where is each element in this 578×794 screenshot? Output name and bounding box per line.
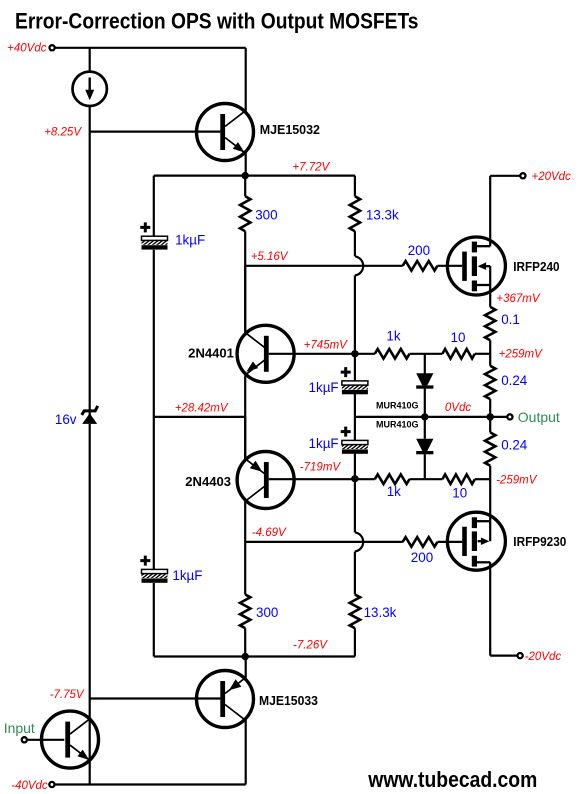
resistor 0.24 lower <box>485 432 495 465</box>
wire left rail lower (zener to bottom) <box>89 424 91 785</box>
svg-text:MUR410G: MUR410G <box>376 401 419 411</box>
wire output to 0.24l <box>489 417 491 433</box>
terminal +20Vdc <box>520 173 525 178</box>
wire -719 node to hop <box>354 479 356 533</box>
resistor 300 bottom <box>240 595 250 629</box>
wire cap to 0V rail <box>354 394 356 440</box>
wire diode column upper <box>424 354 426 374</box>
capacitor 1kuF lower-left <box>140 556 167 583</box>
svg-text:10: 10 <box>452 485 467 500</box>
svg-text:1kµF: 1kµF <box>175 232 205 247</box>
transistor Q-input <box>42 711 99 768</box>
svg-text:1kµF: 1kµF <box>172 568 202 583</box>
resistor 13.3k top <box>350 196 360 231</box>
terminal Input <box>22 737 27 742</box>
wire -7.75V line <box>90 697 221 699</box>
wire 2N4403 emitter up <box>244 417 246 459</box>
wire +28.42mV link <box>154 416 245 418</box>
wire 2N4403 emitter arrow (points into bar) <box>250 461 262 472</box>
svg-text:1kµF: 1kµF <box>309 380 339 395</box>
resistor 200 bottom <box>403 537 438 547</box>
resistor 13.3k bottom <box>350 595 360 629</box>
mosfet IRFP9230 <box>447 512 505 570</box>
svg-text:+745mV: +745mV <box>304 340 348 352</box>
svg-text:-259mV: -259mV <box>496 474 538 486</box>
svg-text:-20Vdc: -20Vdc <box>525 651 562 663</box>
wire 13.3k-top to hop <box>354 231 356 256</box>
wire MJE15033 emitter arrow (points into bar) <box>229 679 241 690</box>
svg-text:MJE15033: MJE15033 <box>259 693 318 708</box>
wire 13.3k-top upper lead <box>354 176 356 197</box>
svg-text:Error-Correction OPS with Outp: Error-Correction OPS with Output MOSFETs <box>15 8 419 33</box>
resistor 1k bottom <box>375 474 410 484</box>
wire -7.26V rail <box>154 655 355 657</box>
resistor 300 top <box>240 196 250 231</box>
wire IRFP240 source down <box>489 266 491 307</box>
wire hop to 13.3k bottom <box>354 552 356 595</box>
wire -20V stub <box>490 654 517 656</box>
svg-text:200: 200 <box>411 550 433 565</box>
wire cap to -719mV node <box>354 454 356 479</box>
wire MJE15032 emitter down <box>245 153 247 176</box>
svg-text:IRFP240: IRFP240 <box>513 259 559 274</box>
wire 0V rail <box>355 416 508 418</box>
mosfet IRFP240 <box>447 237 505 295</box>
resistor 10 bottom <box>442 474 474 484</box>
wire hop over -4.69V line <box>355 532 363 551</box>
wire MJE15033 emitter up <box>245 657 247 680</box>
wire 13.3k-bottom lower lead <box>354 628 356 656</box>
svg-text:300: 300 <box>255 207 277 222</box>
resistor 0.24 upper <box>485 366 495 399</box>
svg-text:-719mV: -719mV <box>300 462 342 474</box>
wire bottom rail -40V <box>55 783 246 785</box>
svg-text:-4.69V: -4.69V <box>252 527 287 539</box>
svg-text:200: 200 <box>408 243 430 258</box>
wire input base <box>27 739 64 741</box>
node diodes 0V junction <box>421 413 428 420</box>
svg-text:-7.75V: -7.75V <box>50 689 85 701</box>
svg-text:0.1: 0.1 <box>501 312 520 327</box>
svg-text:16v: 16v <box>55 412 77 427</box>
wire +5.16V line <box>245 265 403 267</box>
svg-text:+7.72V: +7.72V <box>292 162 330 174</box>
wire 2N4401 base to node <box>269 353 355 355</box>
terminal -20Vdc <box>518 653 523 658</box>
wire left cap column lower <box>153 583 155 657</box>
resistor 10 top <box>442 349 474 359</box>
wire 10 to -259mV <box>475 478 490 480</box>
terminal +40Vdc <box>50 45 55 50</box>
wire current source top stem <box>89 48 91 72</box>
svg-text:MUR410G: MUR410G <box>376 420 419 430</box>
svg-text:1k: 1k <box>387 484 401 499</box>
svg-text:1k: 1k <box>386 329 400 344</box>
transistor MJE15033 <box>197 671 254 728</box>
wire 1k to diode junction <box>410 353 443 355</box>
wire left cap column upper <box>153 176 155 237</box>
terminal -40Vdc <box>49 782 54 787</box>
wire hop to +745mV node <box>354 276 356 381</box>
wire 200-bottom to IRFP9230 gate <box>437 541 462 543</box>
svg-text:+5.16V: +5.16V <box>251 251 289 263</box>
capacitor 1kuF upper-left <box>140 222 167 249</box>
wire 0.1 to +259mV node <box>489 340 491 366</box>
wire left cap column middle <box>153 250 155 570</box>
svg-text:2N4401: 2N4401 <box>188 346 234 361</box>
svg-text:-40Vdc: -40Vdc <box>11 780 48 792</box>
wire 2N4403 base to node <box>269 478 355 480</box>
wire IRFP9230 source up <box>489 479 491 541</box>
wire 300-top lower lead / column to 2N4401 <box>244 231 246 333</box>
resistor 200 top <box>403 261 438 271</box>
svg-text:2N4403: 2N4403 <box>185 474 231 489</box>
wire top rail +40V <box>55 47 246 49</box>
svg-text:+367mV: +367mV <box>496 293 540 305</box>
current source I1 <box>73 72 107 106</box>
wire diode column lower <box>424 454 426 479</box>
transistor 2N4401 <box>237 325 294 382</box>
node -7.26V junction <box>242 653 249 660</box>
wire node to 1k top <box>355 353 375 355</box>
wire -4.69V line <box>245 541 403 543</box>
diode MUR410G lower <box>416 439 433 455</box>
diode MUR410G upper <box>416 373 433 388</box>
wire IRFP9230 drain down <box>489 562 491 655</box>
wire 300-bottom lower lead <box>244 628 246 656</box>
wire 0.24u to output <box>489 399 491 417</box>
wire 10 to +259mV <box>475 353 490 355</box>
svg-text:Output: Output <box>518 409 560 425</box>
svg-text:+259mV: +259mV <box>499 348 543 360</box>
svg-text:+8.25V: +8.25V <box>44 127 82 139</box>
wire 1k to diode junction bottom <box>410 478 443 480</box>
wire diode to 0V <box>424 389 426 439</box>
node +7.72V junction <box>242 172 249 179</box>
wire 0.24l to -259mV <box>489 466 491 480</box>
wire 2N4401 emitter down <box>244 372 246 461</box>
svg-text:1kµF: 1kµF <box>309 436 339 451</box>
transistor 2N4403 <box>237 452 294 509</box>
wire 2N4403 collector down <box>244 499 246 595</box>
wire IRFP240 drain up <box>489 176 491 246</box>
capacitor 1kuF lower-right <box>341 427 368 454</box>
wire 2N4401 collector up <box>244 266 246 333</box>
svg-text:300: 300 <box>256 605 278 620</box>
svg-text:www.tubecad.com: www.tubecad.com <box>367 767 537 792</box>
resistor 1k top <box>375 349 410 359</box>
wire input emitter arrow <box>78 750 90 760</box>
svg-text:MJE15032: MJE15032 <box>260 122 320 137</box>
wire 300-top upper lead <box>244 176 246 197</box>
svg-text:13.3k: 13.3k <box>364 605 397 620</box>
node +745mV <box>351 350 358 357</box>
svg-text:10: 10 <box>451 330 466 345</box>
node output junction <box>487 413 494 420</box>
svg-text:Input: Input <box>4 720 35 736</box>
wire node to 1k bottom <box>355 478 375 480</box>
svg-text:IRFP9230: IRFP9230 <box>513 534 566 549</box>
svg-text:+20Vdc: +20Vdc <box>532 171 572 183</box>
svg-text:0.24: 0.24 <box>501 373 528 388</box>
resistor 0.1 <box>485 307 495 340</box>
wire +8.25V base feed <box>90 131 221 133</box>
zener diode 16v <box>82 406 98 424</box>
terminal Output <box>507 414 512 419</box>
wire MJE15033 collector down <box>245 719 247 785</box>
transistor MJE15032 <box>197 104 254 161</box>
wire left rail upper (current source to zener) <box>89 106 91 415</box>
wire +7.72V rail <box>154 175 355 177</box>
svg-text:+40Vdc: +40Vdc <box>7 43 47 55</box>
capacitor 1kuF upper-right <box>341 367 368 394</box>
wire hop over +5.16V line <box>355 256 363 275</box>
wire MJE15032 emitter arrow <box>233 142 245 152</box>
node -719mV <box>351 475 358 482</box>
svg-text:0Vdc: 0Vdc <box>445 402 471 414</box>
svg-text:-7.26V: -7.26V <box>293 640 328 652</box>
wire 2N4401 emitter arrow <box>246 361 258 371</box>
svg-text:13.3k: 13.3k <box>366 207 399 222</box>
svg-text:0.24: 0.24 <box>501 438 528 453</box>
wire 200-top to IRFP240 gate <box>437 265 462 267</box>
wire +20V stub <box>490 175 520 177</box>
svg-text:+28.42mV: +28.42mV <box>175 403 229 415</box>
wire MJE15032 collector up <box>245 48 247 112</box>
